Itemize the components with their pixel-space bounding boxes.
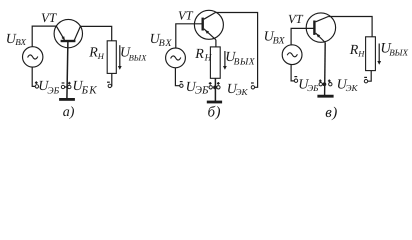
svg-text:VT: VT — [178, 9, 194, 23]
svg-text:R: R — [194, 47, 204, 62]
terminal node + (a output left) — [68, 82, 71, 89]
svg-text:б): б) — [208, 105, 221, 121]
svg-text:ЭБ: ЭБ — [307, 83, 319, 93]
arrow U_ВЫХ (c) — [377, 44, 381, 65]
transistor VT circuit a: collector lead — [74, 26, 80, 40]
svg-text:в): в) — [325, 105, 338, 121]
transistor VT circuit c: body circle — [306, 13, 335, 42]
wire: collector rail to right riser (c) — [328, 17, 372, 37]
label R_Н (a) — [88, 45, 105, 61]
ground (b) — [207, 101, 222, 104]
svg-text:VT: VT — [41, 10, 57, 25]
resistor R_H (a) — [107, 41, 116, 74]
label U_ВХ (c) — [264, 30, 286, 47]
transistor VT circuit b: collector lead — [204, 13, 216, 20]
terminal node - (c input left) — [294, 77, 297, 83]
svg-text:ЭБ: ЭБ — [195, 85, 209, 97]
label U_ЭБ (a) — [38, 79, 59, 96]
transistor VT circuit b: body circle — [194, 10, 223, 39]
wire: collector to resistor top (a) — [80, 26, 111, 40]
arrow U_ВЫХ (a) — [118, 45, 122, 69]
wire: collector rail to right riser (b) — [215, 13, 257, 88]
label U_ЭБ (b) — [186, 80, 209, 97]
resistor R_H (b) — [210, 47, 220, 78]
terminal node + (b middle right) — [217, 82, 220, 89]
AC source G1 (c) — [282, 45, 302, 65]
ground (c) — [317, 95, 333, 98]
ground (a) — [59, 98, 75, 101]
label U_ВЫХ (a) — [120, 45, 147, 62]
transistor VT circuit a: emitter lead with PNP arrow — [56, 26, 65, 41]
svg-text:Н: Н — [204, 54, 213, 64]
label U_ВХ (b) — [150, 32, 173, 49]
svg-text:ВЫХ: ВЫХ — [129, 53, 148, 63]
terminal node + (b middle left) — [209, 82, 213, 89]
junction node (c) — [323, 82, 327, 86]
label U_БК (a) — [73, 79, 98, 96]
label U_ВЫХ (c) — [380, 41, 408, 58]
wire: ground stem (b) — [214, 78, 216, 101]
svg-text:ВЫХ: ВЫХ — [234, 57, 256, 67]
svg-text:БК: БК — [81, 84, 98, 96]
label U_ЭК (b) — [227, 82, 249, 97]
wire: source bottom to input terminal (c) — [291, 65, 294, 81]
wire: emitter to resistor top (b) — [215, 40, 217, 47]
svg-text:Н: Н — [357, 48, 365, 58]
terminal node - (a input right) — [61, 83, 64, 89]
svg-text:R: R — [88, 45, 98, 60]
wire: source top to emitter (a) — [32, 26, 56, 47]
wire stub (a) — [65, 86, 68, 88]
transistor VT circuit b: emitter lead with PNP arrow — [204, 29, 216, 40]
svg-text:ВХ: ВХ — [273, 35, 286, 46]
svg-text:ЭК: ЭК — [236, 87, 249, 97]
transistor VT circuit c: collector lead — [316, 17, 329, 22]
label U_ВХ (a) — [6, 32, 27, 47]
wire: base riser and base lead (b) — [176, 24, 203, 48]
svg-text:ЭК: ЭК — [346, 83, 359, 93]
svg-text:ЭБ: ЭБ — [47, 86, 59, 96]
label U_ЭК (c) — [337, 78, 359, 94]
svg-text:VT: VT — [288, 12, 304, 26]
terminal node + (a input left) — [35, 81, 39, 88]
label R_Н (b) — [194, 47, 212, 64]
terminal node + (c middle right) — [328, 80, 332, 86]
terminal node - (c output right) — [364, 77, 367, 83]
svg-text:ВХ: ВХ — [15, 37, 26, 47]
wire: base lead down to ground (a) — [67, 41, 68, 99]
svg-text:ВЫХ: ВЫХ — [389, 47, 408, 57]
wire: base riser and base lead (c) — [291, 28, 314, 45]
wire: source bottom to input terminal (a) — [32, 67, 35, 86]
svg-text:ВХ: ВХ — [159, 38, 173, 49]
label U_ВЫХ (b) — [225, 50, 256, 67]
terminal node - (b output right) — [251, 83, 255, 89]
arrow U_ВЫХ (b) — [223, 51, 227, 70]
wire: source bottom to input terminal (b) — [175, 68, 179, 86]
wire: resistor bottom to output terminal (a) — [111, 73, 113, 86]
transistor VT circuit a: body circle — [54, 19, 82, 47]
AC source G1 (a) — [23, 47, 43, 67]
transistor VT circuit a: base bar — [61, 40, 76, 42]
wire: emitter down to ground stem (c) — [324, 43, 327, 96]
svg-text:Н: Н — [97, 51, 105, 61]
terminal node + (c middle left) — [319, 80, 323, 86]
wire: resistor bottom to output terminal (c) — [368, 71, 372, 82]
label U_ЭБ (c) — [298, 78, 319, 94]
transistor VT circuit c: emitter lead with PNP arrow — [316, 33, 326, 43]
transistor VT circuit b: base bar — [201, 18, 203, 31]
resistor R_H (c) — [366, 37, 376, 71]
transistor VT circuit c: base bar — [313, 21, 315, 35]
junction node (b) — [213, 86, 217, 90]
terminal node - (b input left) — [180, 82, 183, 88]
terminal node - (a output right) — [107, 82, 112, 87]
svg-text:а): а) — [63, 105, 75, 120]
label R_Н (c) — [349, 43, 365, 59]
AC source G1 (b) — [166, 48, 186, 68]
